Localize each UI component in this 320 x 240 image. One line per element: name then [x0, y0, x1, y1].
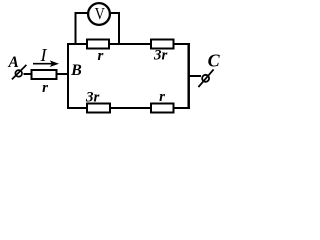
wire: top branch horizontal: [67, 43, 190, 45]
wire: voltmeter loop right vertical: [118, 13, 120, 45]
svg-text:B: B: [70, 62, 82, 79]
svg-text:A: A: [8, 54, 19, 71]
resistor R4 (3r, bottom left): [87, 104, 110, 113]
svg-text:3r: 3r: [153, 48, 168, 64]
svg-text:r: r: [42, 80, 48, 96]
wire: right vertical: [187, 43, 190, 109]
svg-text:I: I: [40, 45, 48, 65]
current arrow I: [33, 60, 59, 67]
terminal A (circle with slash): [12, 65, 27, 80]
wire: bottom branch horizontal: [67, 107, 190, 109]
resistor R1 (r, between A and B): [32, 70, 57, 79]
resistor R5 (r, bottom right): [151, 104, 174, 113]
svg-text:3r: 3r: [85, 90, 100, 106]
resistor R3 (3r, top right): [151, 40, 174, 49]
wire: middle horizontal A to B: [24, 73, 70, 75]
voltmeter V1 (circle): [88, 3, 110, 25]
wire: left vertical at node B: [67, 43, 69, 109]
wire: voltmeter loop left vertical: [75, 13, 77, 45]
resistor R2 (r, top left): [87, 40, 109, 49]
terminal C (circle with slash): [198, 69, 213, 87]
svg-text:C: C: [208, 50, 221, 70]
wire: stub to terminal C: [188, 75, 201, 77]
wire: voltmeter loop top horizontal: [75, 12, 121, 14]
svg-text:r: r: [159, 89, 165, 105]
svg-text:r: r: [97, 48, 103, 64]
svg-text:V: V: [95, 5, 105, 23]
